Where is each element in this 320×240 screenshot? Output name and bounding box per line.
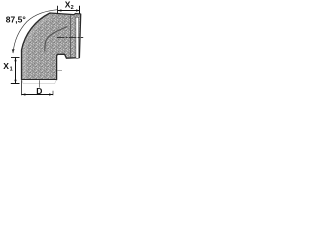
svg-text:87,5°: 87,5°	[6, 14, 27, 24]
svg-text:X: X	[3, 61, 9, 71]
svg-text:1: 1	[10, 67, 13, 73]
svg-text:2: 2	[71, 5, 74, 11]
svg-text:D: D	[36, 86, 42, 96]
